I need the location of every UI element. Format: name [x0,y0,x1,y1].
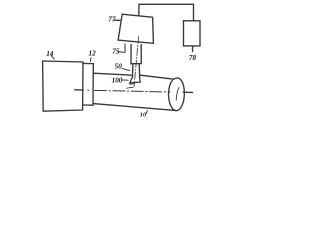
svg-text:75: 75 [112,48,120,56]
svg-text:77: 77 [108,15,116,23]
svg-text:12: 12 [89,49,97,57]
svg-text:50: 50 [115,63,123,71]
svg-text:78: 78 [189,54,197,62]
svg-text:100: 100 [112,76,123,84]
svg-text:10: 10 [140,112,147,119]
svg-text:14: 14 [46,50,54,58]
